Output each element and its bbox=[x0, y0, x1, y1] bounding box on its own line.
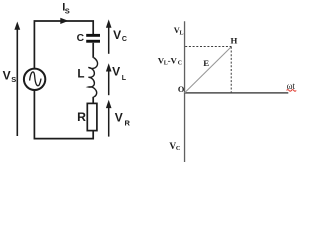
svg-text:V: V bbox=[112, 64, 120, 78]
svg-text:V: V bbox=[115, 111, 123, 125]
svg-text:-V: -V bbox=[168, 55, 178, 65]
svg-text:E: E bbox=[203, 58, 209, 68]
svg-text:S: S bbox=[65, 6, 70, 15]
svg-text:L: L bbox=[180, 30, 184, 36]
svg-text:R: R bbox=[77, 110, 86, 124]
svg-text:C: C bbox=[176, 145, 181, 152]
svg-text:O: O bbox=[178, 85, 185, 94]
svg-text:L: L bbox=[122, 75, 127, 82]
svg-text:H: H bbox=[231, 36, 238, 46]
svg-text:V: V bbox=[113, 28, 121, 42]
svg-text:S: S bbox=[11, 75, 16, 84]
svg-text:R: R bbox=[125, 118, 131, 127]
svg-text:L: L bbox=[77, 67, 84, 80]
svg-text:V: V bbox=[3, 69, 11, 83]
svg-text:C: C bbox=[178, 61, 182, 67]
svg-text:C: C bbox=[122, 36, 127, 43]
svg-text:C: C bbox=[77, 33, 85, 44]
